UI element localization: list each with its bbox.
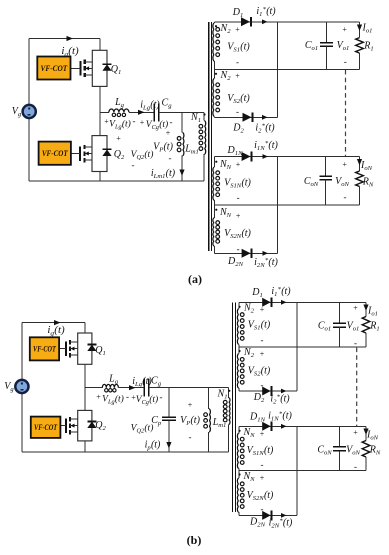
svg-text:+: + (96, 393, 101, 402)
svg-text:N1: N1 (217, 389, 228, 401)
svg-text:Vo1: Vo1 (337, 40, 350, 52)
svg-text:R1: R1 (363, 41, 373, 53)
svg-text:NN: NN (242, 427, 255, 439)
svg-text:CoN: CoN (304, 176, 319, 188)
svg-text:Io1: Io1 (367, 306, 378, 318)
svg-text:-: - (261, 335, 264, 345)
svg-text:-: - (344, 192, 347, 202)
svg-text:VS2N (t): VS2N (t) (224, 228, 251, 240)
svg-text:Cg: Cg (162, 98, 173, 110)
svg-text:+: + (166, 129, 171, 138)
svg-text:i1N * (t): i1N * (t) (268, 410, 292, 422)
svg-text:+: + (260, 430, 265, 439)
svg-text:-: - (132, 160, 135, 170)
svg-text:-: - (237, 193, 240, 203)
svg-text:VS1N (t): VS1N (t) (247, 445, 274, 457)
svg-text:Q2: Q2 (114, 149, 125, 161)
svg-text:-: - (354, 462, 357, 472)
svg-text:VF-COT: VF-COT (41, 63, 68, 73)
svg-text:N2: N2 (220, 70, 232, 82)
svg-text:N2: N2 (220, 23, 232, 35)
svg-text:-: - (126, 392, 129, 402)
svg-text:i1N * (t): i1N * (t) (254, 140, 278, 152)
svg-text:+: + (342, 25, 347, 34)
svg-text:NN: NN (242, 471, 255, 483)
svg-text:ig (t): ig (t) (47, 324, 65, 337)
svg-text:-: - (169, 153, 172, 163)
svg-text:D1N: D1N (227, 145, 244, 157)
svg-text:RN: RN (362, 177, 374, 189)
svg-text:+: + (140, 118, 145, 127)
svg-text:Cg: Cg (151, 376, 162, 388)
svg-text:NN: NN (219, 207, 232, 219)
svg-text:+: + (260, 350, 265, 359)
svg-text:N2: N2 (243, 347, 255, 359)
svg-text:+: + (236, 160, 241, 169)
svg-text:-: - (170, 117, 173, 127)
svg-text:VF-COT: VF-COT (42, 148, 68, 158)
svg-text:D1: D1 (251, 287, 263, 299)
svg-text:VF-COT: VF-COT (34, 422, 58, 432)
svg-text:VCg (t): VCg (t) (136, 394, 158, 406)
svg-text:+: + (342, 160, 347, 169)
svg-text:i2 * (t): i2 * (t) (255, 122, 275, 134)
svg-text:Lg: Lg (114, 97, 125, 109)
svg-text:VF-COT: VF-COT (33, 344, 56, 354)
svg-text:D2N: D2N (227, 256, 244, 268)
svg-text:VS2 (t): VS2 (t) (227, 93, 250, 105)
svg-text:-: - (189, 432, 192, 442)
svg-text:ip (t): ip (t) (145, 440, 161, 452)
svg-text:+: + (235, 72, 240, 81)
svg-text:D2: D2 (232, 123, 244, 135)
svg-text:-: - (237, 244, 240, 254)
svg-text:i2N * (t): i2N * (t) (254, 257, 278, 269)
svg-text:+: + (353, 428, 358, 437)
svg-text:VS2 (t): VS2 (t) (248, 366, 271, 378)
svg-text:-: - (344, 57, 347, 67)
svg-text:(b): (b) (187, 533, 202, 547)
svg-text:D1: D1 (232, 7, 244, 19)
svg-text:Q1: Q1 (95, 345, 106, 357)
svg-text:+: + (353, 304, 358, 313)
svg-text:VLg (t): VLg (t) (102, 394, 124, 406)
svg-text:IoN: IoN (360, 160, 373, 172)
svg-text:iLg (t): iLg (t) (140, 100, 160, 112)
svg-text:VoN: VoN (335, 176, 349, 188)
svg-text:+: + (260, 305, 265, 314)
svg-text:iLm1 (t): iLm1 (t) (151, 168, 176, 180)
svg-text:VS2N (t): VS2N (t) (247, 490, 274, 502)
svg-text:Cp: Cp (151, 415, 162, 427)
svg-text:Io1: Io1 (362, 23, 373, 35)
svg-text:i1 * (t): i1 * (t) (271, 286, 291, 298)
svg-text:D1N: D1N (249, 412, 266, 424)
svg-text:Co1: Co1 (318, 321, 331, 333)
svg-text:VQ2 (t): VQ2 (t) (131, 423, 154, 435)
svg-text:-: - (133, 116, 136, 126)
svg-text:-: - (160, 392, 163, 402)
svg-text:N2: N2 (243, 303, 255, 315)
svg-text:+: + (235, 25, 240, 34)
svg-text:N1: N1 (190, 112, 201, 124)
svg-text:Q1: Q1 (111, 64, 122, 76)
svg-text:VS1 (t): VS1 (t) (248, 320, 271, 332)
svg-text:VP (t): VP (t) (153, 142, 173, 154)
svg-text:Lm1: Lm1 (184, 144, 199, 156)
svg-text:(a): (a) (188, 272, 202, 286)
svg-text:Q2: Q2 (95, 420, 106, 432)
svg-text:Vo1: Vo1 (347, 321, 360, 333)
svg-text:i2 * (t): i2 * (t) (270, 393, 290, 405)
svg-text:i1 * (t): i1 * (t) (256, 6, 276, 18)
svg-text:-: - (236, 107, 239, 117)
svg-text:+: + (236, 212, 241, 221)
svg-text:CoN: CoN (317, 445, 332, 457)
svg-text:IoN: IoN (366, 430, 379, 442)
svg-text:VS1 (t): VS1 (t) (227, 42, 250, 54)
svg-text:VLg (t): VLg (t) (109, 119, 131, 131)
svg-text:-: - (261, 460, 264, 470)
svg-text:+: + (260, 474, 265, 483)
svg-text:VS1N (t): VS1N (t) (224, 178, 251, 190)
svg-text:-: - (354, 338, 357, 348)
svg-text:VoN: VoN (346, 445, 360, 457)
svg-text:Co1: Co1 (305, 40, 318, 52)
svg-text:+: + (188, 401, 193, 410)
svg-text:NN: NN (219, 159, 232, 171)
svg-text:R1: R1 (369, 321, 379, 333)
svg-text:Vg: Vg (12, 106, 22, 118)
svg-text:VP (t): VP (t) (180, 415, 200, 427)
svg-text:Vg: Vg (4, 381, 14, 393)
svg-text:Lg: Lg (108, 374, 119, 386)
svg-text:-: - (236, 57, 239, 67)
svg-text:RN: RN (369, 445, 381, 457)
svg-text:+: + (116, 134, 121, 143)
